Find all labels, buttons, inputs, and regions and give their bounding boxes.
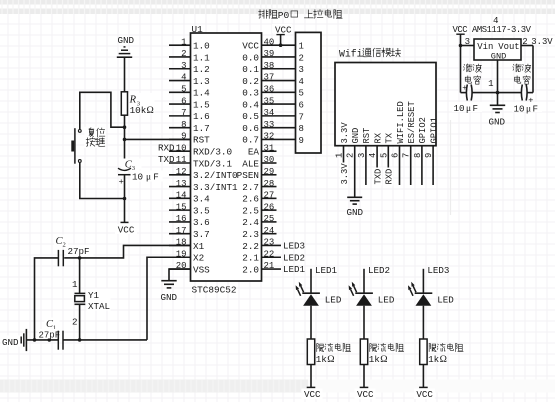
U1 pin 38 (0.1) stub and number: [242, 61, 295, 75]
svg-text:Wifi: Wifi: [339, 49, 363, 60]
junction crystal top node: [78, 256, 82, 260]
svg-text:LED: LED: [325, 295, 342, 306]
U1 pin 17 (3.7) stub and number: [169, 226, 210, 240]
LED D3 symbol (cathode bar + triangle): [415, 293, 433, 306]
filter capacitor C4 (10uF) plates: [462, 83, 472, 101]
svg-text:3: 3: [181, 61, 186, 71]
power symbol VCC (LED3): [414, 387, 435, 400]
svg-text:RXD: RXD: [158, 142, 175, 153]
svg-text:0.2: 0.2: [242, 76, 259, 87]
svg-text:14: 14: [176, 191, 187, 201]
svg-text:2.7: 2.7: [242, 182, 259, 193]
U1 pin 16 (3.6) stub and number: [169, 214, 210, 228]
U1 pin 35 (0.4) stub and number: [242, 96, 295, 110]
svg-text:21: 21: [264, 261, 275, 271]
svg-text:35: 35: [264, 96, 275, 106]
WiFi module body: [335, 63, 436, 146]
U1 pin 14 (3.4) stub and number: [169, 191, 210, 205]
junction C3/button/VCC: [123, 197, 127, 201]
U2 pin 1 (GND) wire: [488, 60, 497, 105]
net label RXD (U1 pin 10): [158, 142, 175, 153]
svg-text:VCC AMS1117-3.3V: VCC AMS1117-3.3V: [453, 25, 532, 35]
svg-text:3.2/INT0: 3.2/INT0: [193, 170, 238, 181]
svg-text:2: 2: [72, 317, 78, 328]
U2 pin 3 stub: [461, 37, 475, 47]
push button S1 (reset): [71, 128, 81, 164]
U2 pin 2 stub and 3.3V net label: [521, 37, 553, 47]
net label LED3 (led column 3): [427, 265, 449, 276]
svg-text:7: 7: [402, 153, 412, 158]
svg-text:10k: 10k: [130, 105, 147, 116]
svg-text:37: 37: [264, 73, 275, 83]
svg-text:VCC: VCC: [118, 224, 135, 235]
U1 pin 22 (2.1) stub and number: [242, 249, 281, 263]
U1 reference label: [192, 24, 204, 35]
LED D2 symbol (cathode bar + triangle): [355, 293, 373, 306]
svg-text:0.7: 0.7: [242, 135, 259, 146]
svg-text:XTAL: XTAL: [88, 301, 110, 312]
svg-text:1.0: 1.0: [193, 41, 210, 52]
svg-text:39: 39: [264, 49, 275, 59]
U1 pin 26 (2.5) stub and number: [242, 202, 276, 216]
svg-text:LED: LED: [378, 295, 395, 306]
svg-text:VCC: VCC: [304, 389, 321, 400]
U1 pin 15 (3.5) stub and number: [169, 202, 210, 216]
ground rail (crystal section): [27, 339, 148, 341]
svg-text:3.6: 3.6: [193, 217, 210, 228]
svg-text:1.4: 1.4: [193, 88, 210, 99]
net label LED2 (led column 2): [368, 265, 390, 276]
IC U1 STC89C52 body: [191, 33, 262, 281]
U1 pin 3 (1.2) stub and number: [169, 61, 210, 75]
U1 pin 32 (0.7) stub and number: [242, 132, 295, 146]
svg-text:0.6: 0.6: [242, 123, 259, 134]
wire LED1 anode: [310, 269, 312, 293]
svg-text:μ: μ: [146, 173, 151, 183]
U1 pin 36 (0.3) stub and number: [242, 85, 295, 99]
WiFi module pin 6 (WIFI.LED): [391, 101, 406, 185]
svg-text:TX: TX: [385, 132, 395, 143]
svg-text:GND: GND: [351, 128, 361, 144]
svg-text:RXD/3.0: RXD/3.0: [193, 147, 232, 158]
svg-text:F: F: [533, 103, 539, 114]
svg-text:μ: μ: [526, 104, 531, 114]
svg-text:GND: GND: [2, 337, 19, 348]
junction RST net: [123, 138, 127, 142]
svg-text:WIFI.LED: WIFI.LED: [396, 101, 406, 143]
U1 pin 5 (1.4) stub and number: [169, 85, 210, 99]
svg-text:6: 6: [299, 101, 304, 111]
capacitor C3 label: [122, 159, 142, 173]
svg-text:12: 12: [176, 167, 187, 177]
WiFi module pin 3 (RST): [357, 128, 372, 185]
svg-text:4: 4: [181, 73, 186, 83]
svg-text:33: 33: [264, 120, 275, 130]
LED D2 label: [378, 295, 395, 306]
wire LED3 to resistor: [422, 306, 424, 339]
svg-text:Ω: Ω: [380, 354, 387, 365]
svg-text:GND: GND: [118, 35, 135, 46]
LED D2 (emission arrows): [349, 282, 357, 296]
svg-text:2.6: 2.6: [242, 194, 259, 205]
U1 pin 11 (TXD/3.1) stub and number: [169, 155, 232, 169]
svg-text:1: 1: [299, 42, 304, 52]
svg-text:RST: RST: [193, 135, 210, 146]
svg-text:9: 9: [424, 153, 434, 158]
svg-text:26: 26: [264, 202, 275, 212]
LED D1 label: [325, 295, 342, 306]
svg-text:30: 30: [264, 155, 275, 165]
U1 pin 19 (X2) stub and number: [169, 249, 204, 263]
svg-text:25: 25: [264, 214, 275, 224]
wire crystal vertical pin 1: [72, 258, 80, 293]
ground symbol below regulator: [489, 105, 506, 127]
net label LED1 (U1 pin 21): [283, 264, 306, 275]
svg-text:1k: 1k: [369, 354, 381, 365]
svg-text:RXD: RXD: [385, 169, 395, 185]
ground symbol above R3: [117, 35, 135, 57]
svg-text:5: 5: [181, 85, 186, 95]
svg-text:8: 8: [181, 120, 186, 130]
crystal Y1 body: [75, 293, 86, 304]
svg-text:F: F: [473, 103, 479, 114]
U1 part label STC89C52: [192, 285, 237, 296]
C3 value 10uF: [131, 171, 163, 183]
U1 pin 37 (0.2) stub and number: [242, 73, 295, 87]
svg-text:LED3: LED3: [283, 241, 305, 252]
net label LED2 (U1 pin 22): [283, 252, 305, 263]
resistor network RP1 pin 9: [299, 136, 304, 146]
WiFi module pin 1 (3.3V): [335, 122, 350, 186]
power symbol VCC (LED1): [302, 387, 323, 400]
resistor R5 (current limiting) body: [360, 339, 367, 365]
wire X2 net (U1 pin19): [147, 257, 191, 340]
svg-text:F: F: [153, 172, 159, 183]
svg-text:0.3: 0.3: [242, 88, 259, 99]
svg-text:3.3V: 3.3V: [340, 163, 350, 185]
svg-text:2: 2: [346, 153, 356, 158]
WiFi module pin 9 (GPIO1): [424, 117, 439, 185]
svg-text:0.5: 0.5: [242, 111, 259, 122]
svg-text:9: 9: [299, 136, 304, 146]
net label LED1 (led column 1): [315, 265, 338, 276]
resistor network RP1 pin 5: [299, 89, 304, 99]
resistor network RP1 pin 8: [299, 124, 304, 134]
svg-text:LED: LED: [437, 295, 454, 306]
svg-text:ALE: ALE: [242, 158, 259, 169]
wire LED1 to resistor: [310, 306, 312, 339]
svg-text:5: 5: [379, 153, 389, 158]
svg-text:0.4: 0.4: [242, 99, 259, 110]
svg-text:GND: GND: [489, 117, 506, 128]
svg-text:1: 1: [488, 79, 493, 89]
svg-text:6: 6: [391, 153, 401, 158]
svg-text:8: 8: [299, 124, 304, 134]
svg-text:1.3: 1.3: [193, 76, 210, 87]
svg-text:RST: RST: [362, 128, 372, 144]
resistor network RP1 (P0 pull-up) body: [296, 32, 322, 153]
capacitor C2 label: [54, 235, 68, 249]
wire LED2 anode: [363, 269, 365, 293]
svg-text:7: 7: [299, 112, 304, 122]
R4 label: current-limit resistor 1k ohm: [316, 343, 351, 364]
svg-text:28: 28: [264, 179, 275, 189]
svg-text:PSEN: PSEN: [237, 170, 259, 181]
wire crystal top node to C2: [64, 257, 79, 259]
svg-text:2.5: 2.5: [242, 205, 259, 216]
U1 pin 18 (X1) stub and number: [169, 238, 205, 252]
resistor R6 (current limiting) body: [420, 339, 427, 365]
resistor network RP1 pin 4: [299, 77, 304, 87]
svg-text:Ω: Ω: [440, 354, 447, 365]
svg-text:3.3/INT1: 3.3/INT1: [193, 182, 238, 193]
svg-text:2: 2: [181, 49, 186, 59]
svg-text:7: 7: [181, 108, 186, 118]
svg-text:34: 34: [264, 108, 275, 118]
svg-text:0.1: 0.1: [242, 64, 259, 75]
svg-text:1: 1: [72, 279, 78, 290]
ground symbol below WiFi pin 2: [347, 197, 364, 218]
svg-text:2.4: 2.4: [242, 217, 259, 228]
svg-text:16: 16: [176, 214, 187, 224]
U1 pin 23 (2.2) stub and number: [242, 238, 281, 252]
junction reset button branch: [123, 125, 127, 129]
wire VSS to ground: [169, 269, 191, 281]
WiFi module pin 8 (GPIO2): [413, 117, 428, 185]
svg-text:Ω: Ω: [147, 105, 154, 116]
wire filter rail: [461, 92, 534, 94]
R5 label: current-limit resistor 1k ohm: [369, 343, 404, 364]
R3 value 10k ohm: [130, 105, 154, 116]
filter capacitor C4 label: [464, 64, 482, 84]
U1 pin 27 (2.6) stub and number: [242, 191, 276, 205]
svg-text:1k: 1k: [428, 354, 440, 365]
svg-text:1: 1: [181, 37, 186, 47]
svg-text:5: 5: [299, 89, 304, 99]
U1 pin 6 (1.5) stub and number: [169, 96, 210, 110]
U1 pin 12 (3.2/INT0) stub and number: [169, 167, 238, 181]
svg-text:4: 4: [299, 77, 304, 87]
wire resistor to VCC: [310, 365, 312, 388]
svg-text:4: 4: [368, 153, 378, 158]
R6 label: current-limit resistor 1k ohm: [428, 343, 463, 364]
svg-text:11: 11: [176, 155, 187, 165]
svg-text:10: 10: [514, 103, 525, 114]
svg-text:2: 2: [63, 241, 66, 248]
svg-text:0.0: 0.0: [242, 52, 259, 63]
power symbol VCC (reset section): [115, 222, 137, 235]
svg-text:+: +: [119, 177, 124, 187]
U1 pin 39 (0.0) stub and number: [242, 49, 295, 63]
U1 pin 28 (2.7) stub and number: [242, 179, 276, 193]
capacitor C3 (10uF polarized) plates: [118, 168, 131, 187]
power symbol VCC (regulator input): [456, 34, 464, 92]
svg-text:10: 10: [132, 172, 143, 183]
wire 3.3V output down: [532, 46, 534, 93]
svg-text:VCC: VCC: [357, 389, 374, 400]
svg-text:X2: X2: [193, 253, 204, 264]
wire LED2 to resistor: [363, 306, 365, 339]
U1 pin 20 (VSS) stub and number: [169, 261, 210, 275]
junction rail / C2 ground drop: [33, 338, 37, 342]
svg-text:15: 15: [176, 202, 187, 212]
svg-text:3: 3: [357, 153, 367, 158]
svg-text:GND: GND: [161, 292, 178, 303]
wire button bottom to C3 bottom node: [80, 163, 125, 199]
wire GND to R3: [124, 57, 126, 92]
LED D1 (emission arrows): [296, 282, 304, 296]
U1 pin 24 (2.3) stub and number: [242, 226, 276, 240]
svg-text:P0: P0: [278, 10, 290, 21]
resistor network RP1 pin 1: [299, 42, 304, 52]
svg-text:40: 40: [264, 37, 275, 47]
LED D1 symbol (cathode bar + triangle): [302, 293, 320, 306]
svg-text:RX: RX: [373, 132, 383, 143]
svg-text:LED2: LED2: [283, 252, 305, 263]
svg-text:3.7: 3.7: [193, 229, 210, 240]
U1 pin 7 (1.6) stub and number: [169, 108, 210, 122]
junction GND rail: [496, 91, 500, 95]
svg-text:1: 1: [335, 153, 345, 158]
resistor network RP1 pin 2: [299, 53, 304, 63]
resistor network RP1 pin 7: [299, 112, 304, 122]
filter capacitor C5 label: [513, 64, 531, 84]
wire X1 net (U1 pin18): [80, 245, 191, 257]
wire resistor to VCC: [422, 365, 424, 388]
wire button branch top: [80, 92, 125, 129]
svg-text:3.5: 3.5: [193, 205, 210, 216]
regulator U2 body: [474, 39, 521, 62]
ground symbol (left, rotated): [1, 329, 26, 351]
U1 pin 4 (1.3) stub and number: [169, 73, 210, 87]
power symbol VCC (LED2): [355, 387, 376, 400]
junction rail (extra): [48, 338, 52, 342]
svg-text:8: 8: [413, 153, 423, 158]
svg-text:1.6: 1.6: [193, 111, 210, 122]
WiFi module pin 4 (RX): [368, 132, 383, 185]
C2 value 27pF: [67, 245, 94, 257]
WiFi module pin 5 (TX): [379, 132, 394, 185]
power symbol VCC at U1 pin 40: [272, 24, 292, 45]
Y1 reference and XTAL label: [87, 289, 111, 312]
net label LED3 (U1 pin 23): [283, 241, 305, 252]
U1 pin 29 (PSEN) stub and number: [237, 167, 277, 181]
svg-text:1k: 1k: [316, 354, 328, 365]
U1 pin 33 (0.6) stub and number: [242, 120, 295, 134]
U1 pin 40 (VCC) stub and number: [242, 37, 295, 51]
U1 pin 34 (0.5) stub and number: [242, 108, 295, 122]
capacitor C1 (27pF) plates: [58, 331, 63, 350]
svg-text:2: 2: [299, 53, 304, 63]
svg-text:38: 38: [264, 61, 275, 71]
ground symbol below VSS: [161, 281, 178, 303]
resistor network RP1 pin 6: [299, 101, 304, 111]
svg-text:VCC: VCC: [242, 41, 259, 52]
svg-text:2.2: 2.2: [242, 241, 259, 252]
U1 pin 1 (1.0) stub and number: [169, 37, 210, 51]
U1 pin 2 (1.1) stub and number: [169, 49, 210, 63]
svg-text:27: 27: [264, 191, 275, 201]
C1 value 27pF: [38, 329, 62, 340]
svg-text:29: 29: [264, 167, 275, 177]
capacitor C2 (27pF) plates: [58, 250, 63, 266]
svg-text:LED1: LED1: [283, 264, 306, 275]
svg-text:LED1: LED1: [315, 265, 338, 276]
svg-text:VCC: VCC: [416, 389, 433, 400]
wire LED3 anode: [422, 269, 424, 293]
resistor network RP1 pin 3: [299, 65, 304, 75]
wire resistor to VCC: [363, 365, 365, 388]
wire C2 left to ground drop: [35, 258, 59, 340]
svg-text:2: 2: [522, 37, 527, 47]
wire C3 bottom to VCC: [124, 175, 126, 223]
wire crystal pin 2 to rail: [72, 304, 80, 340]
svg-text:GND: GND: [347, 207, 364, 218]
svg-text:STC89C52: STC89C52: [192, 285, 237, 296]
svg-text:17: 17: [176, 226, 187, 236]
C5 value 10uF: [512, 102, 542, 114]
capacitor C1 label: [45, 318, 60, 332]
svg-text:1.5: 1.5: [193, 99, 210, 110]
svg-text:10: 10: [176, 143, 187, 153]
svg-text:TXD/3.1: TXD/3.1: [193, 158, 232, 169]
svg-text:3.4: 3.4: [193, 194, 210, 205]
U1 pin 21 (2.0) stub and number: [242, 261, 281, 275]
svg-text:24: 24: [264, 226, 275, 236]
svg-text:LED3: LED3: [427, 265, 449, 276]
svg-text:2.3: 2.3: [242, 229, 259, 240]
WiFi module title: [339, 48, 401, 60]
wire R3 bottom to RST node: [124, 115, 126, 168]
svg-text:6: 6: [181, 96, 186, 106]
U1 pin 30 (ALE) stub and number: [242, 155, 276, 169]
svg-text:μ: μ: [466, 104, 471, 114]
svg-text:EA: EA: [248, 147, 260, 158]
U1 pin 31 (EA) stub and number: [248, 143, 277, 157]
LED D3 (emission arrows): [408, 282, 416, 296]
svg-text:1.7: 1.7: [193, 123, 210, 134]
svg-text:Y1: Y1: [88, 290, 100, 301]
U1 pin 9 (RST) stub and number: [169, 132, 210, 146]
svg-text:10: 10: [454, 103, 465, 114]
U1 pin 8 (1.7) stub and number: [169, 120, 210, 134]
net label TXD (U1 pin 11): [158, 154, 175, 165]
svg-text:U1: U1: [192, 24, 204, 35]
svg-text:2.0: 2.0: [242, 264, 259, 275]
svg-text:27pF: 27pF: [39, 330, 61, 340]
svg-text:TXD: TXD: [158, 154, 175, 165]
svg-text:+: +: [462, 83, 467, 93]
resistor R3 body: [121, 92, 127, 115]
svg-text:GPIO1: GPIO1: [429, 117, 439, 143]
resistor R4 (current limiting) body: [307, 339, 314, 365]
svg-text:1.1: 1.1: [193, 52, 210, 63]
C4 value 10uF: [452, 102, 482, 114]
U1 pin 10 (RXD/3.0) stub and number: [169, 143, 232, 157]
U1 pin 13 (3.3/INT1) stub and number: [169, 179, 238, 193]
svg-text:32: 32: [264, 132, 275, 142]
LED D3 label: [437, 295, 454, 306]
wire RST to U1 pin 9: [125, 138, 191, 140]
svg-text:GPIO2: GPIO2: [418, 117, 428, 143]
R3 reference label: [129, 93, 155, 114]
svg-text:36: 36: [264, 85, 275, 95]
svg-text:GND: GND: [491, 52, 506, 62]
net label: P0 pull-up resistor network title: [259, 10, 342, 22]
svg-text:23: 23: [264, 238, 275, 248]
svg-text:1.2: 1.2: [193, 64, 210, 75]
junction VCC / pin3: [459, 44, 463, 48]
